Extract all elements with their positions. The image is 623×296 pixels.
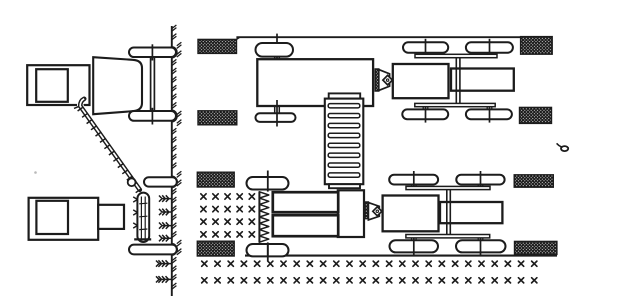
tractor steering neck lines (bottom unit) xyxy=(446,190,448,235)
windrow strip 4 left xyxy=(197,241,234,256)
hitch diamond coupling (top unit) xyxy=(383,75,393,85)
stubble cross marks bottom row 2 xyxy=(202,278,207,283)
tractor top axle bar (top unit) xyxy=(415,54,497,57)
combine axle line (bottom unit) xyxy=(267,171,269,177)
axle frame between wheels (top machine) xyxy=(150,53,152,117)
hitch pin line (bottom unit) xyxy=(382,210,384,212)
tractor hood (top unit) xyxy=(451,69,514,91)
tractor hub marks (top unit) xyxy=(422,53,424,55)
front wheel axle line (top machine) xyxy=(151,44,153,60)
rear wheel (bottom machine) xyxy=(129,245,177,255)
hitch pin line (top unit) xyxy=(392,79,394,81)
windrow strip 3 right xyxy=(514,175,553,187)
tractor rear-top wheel (bottom unit) xyxy=(389,175,438,185)
front wheel (top machine) xyxy=(129,48,176,58)
trailer rear wheel (plan view) xyxy=(256,113,296,122)
hitch funnel (bottom unit) xyxy=(368,203,379,220)
windrow strip 2 right xyxy=(520,107,552,123)
tractor axle lines (top unit) xyxy=(425,39,427,55)
trailer axle line bottom (plan view trailer) xyxy=(276,100,278,127)
stubble cross marks bottom row 1 xyxy=(202,261,207,266)
trailer front wheel (plan view) xyxy=(256,43,294,57)
slatted conveyor slats xyxy=(328,104,360,108)
trailer box inner panel (bottom machine) xyxy=(36,201,68,234)
tractor rear-top wheel (top unit) xyxy=(403,42,448,52)
pickup teeth column xyxy=(259,192,268,242)
pickup teeth base line xyxy=(258,191,260,242)
front wheel (bottom machine) xyxy=(144,177,177,186)
hitch hatched bracket (bottom unit) xyxy=(365,202,369,219)
combine axle inside wheels xyxy=(267,177,269,190)
tractor body (top unit) xyxy=(393,64,449,98)
trailer body (left unit, bottom machine) xyxy=(29,198,99,240)
unloading auger tube xyxy=(80,99,140,190)
tractor body (bottom unit) xyxy=(383,196,439,232)
figure label b (rotated) xyxy=(561,146,568,151)
tractor front-top wheel (bottom unit) xyxy=(456,175,504,185)
trailer body (left unit, top machine) xyxy=(27,65,89,105)
feeder chevrons left of elevator xyxy=(133,197,137,228)
tractor hood trapezoid (top machine) xyxy=(93,57,142,114)
tractor front-bottom wheel (bottom unit) xyxy=(456,240,506,252)
tractor bottom axle bar (bottom unit) xyxy=(406,235,490,238)
slatted conveyor cap bottom xyxy=(329,184,360,188)
combine right block xyxy=(338,190,364,237)
tractor hub marks (bottom unit) xyxy=(411,185,413,187)
trailer body (plan view) xyxy=(257,59,373,106)
slatted conveyor cap top xyxy=(329,93,361,98)
combine rear wheel (bottom unit) xyxy=(247,244,289,256)
windrow strip 4 right xyxy=(515,241,557,254)
tractor steering neck lines (top unit) xyxy=(455,58,457,104)
auger tick marks xyxy=(74,107,142,193)
windrow strip 1 right xyxy=(521,37,553,55)
trailer hub marks top xyxy=(274,57,276,62)
windrow strip 1 left xyxy=(198,39,237,53)
combine front wheel (bottom unit) xyxy=(247,177,289,190)
trailer box inner panel (top machine) xyxy=(36,69,68,102)
bar under elevator xyxy=(134,238,151,240)
field edge line with wheel bumps xyxy=(172,26,177,296)
drawbar neck (bottom machine) xyxy=(98,205,124,229)
top field boundary line xyxy=(236,36,552,38)
trailer hub marks bottom xyxy=(274,106,276,113)
combine body lower section xyxy=(273,215,338,236)
tractor hood (bottom unit) xyxy=(440,202,502,223)
tractor bottom axle bar (top unit) xyxy=(415,103,495,106)
standing crop symbols left of edge line xyxy=(159,195,172,202)
rear wheel axle line (top machine) xyxy=(151,108,153,125)
slatted conveyor box xyxy=(325,99,364,185)
top boundary line start jog xyxy=(236,37,239,39)
vertical elevator cylinder (bottom machine) xyxy=(137,193,149,242)
tractor rear-bottom wheel (top unit) xyxy=(402,109,448,119)
tractor axle lines (bottom unit) xyxy=(413,171,415,186)
rear wheel (top machine) xyxy=(129,111,176,121)
tractor top axle bar (bottom unit) xyxy=(406,186,490,189)
tractor front-bottom wheel (top unit) xyxy=(466,109,512,119)
elevator inner lines xyxy=(140,197,142,239)
combine body upper section xyxy=(273,192,338,212)
hitch funnel (top unit) xyxy=(379,70,390,91)
hitch diamond coupling (bottom unit) xyxy=(373,207,382,216)
tractor front-top wheel (top unit) xyxy=(466,42,513,52)
windrow strip 3 left xyxy=(197,172,234,187)
hitch hatched bracket (top unit) xyxy=(375,69,379,91)
scan speck xyxy=(34,171,37,174)
bottom field boundary line xyxy=(245,255,557,257)
pulley ring at auger end xyxy=(128,178,136,186)
edge line hatch ticks xyxy=(172,25,182,289)
tractor rear-bottom wheel (bottom unit) xyxy=(390,240,439,252)
windrow strip 2 left xyxy=(198,111,237,125)
stubble cross marks left block xyxy=(201,194,206,199)
trailer axle line top (plan view trailer) xyxy=(276,34,278,62)
